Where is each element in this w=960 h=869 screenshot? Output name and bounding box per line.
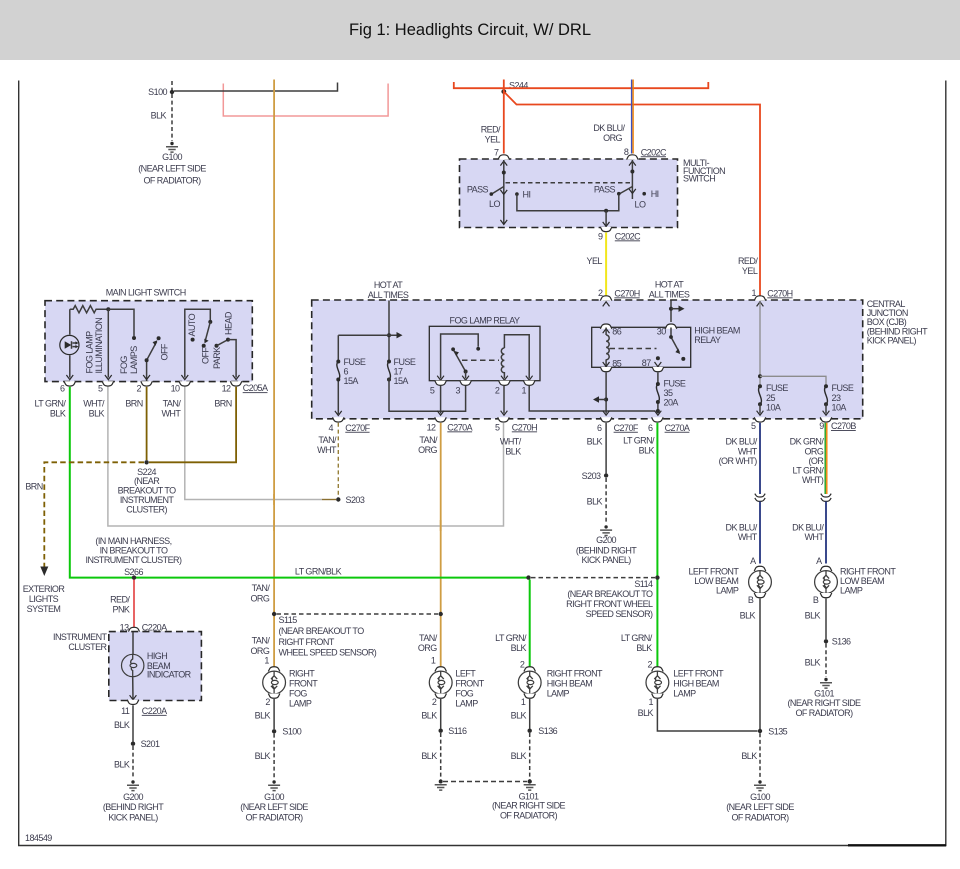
right front fog lamp bbox=[263, 656, 319, 709]
svg-text:FRONT: FRONT bbox=[455, 679, 484, 689]
fog lamp relay bbox=[429, 326, 540, 380]
node S116 bbox=[439, 726, 467, 736]
left front fog lamp bbox=[429, 656, 484, 709]
wire dashed BLK above S100 bbox=[171, 81, 173, 90]
node S115 on tan run bbox=[272, 612, 377, 658]
svg-text:BLK: BLK bbox=[255, 751, 271, 761]
svg-text:PASS: PASS bbox=[467, 184, 489, 194]
fuse 35 20A bbox=[655, 373, 686, 416]
svg-text:S115: S115 bbox=[279, 615, 298, 625]
MLS pin 5 bbox=[98, 381, 114, 393]
wire RED/YEL from top through S244 to MFS pin 7 bbox=[503, 80, 505, 154]
svg-text:7: 7 bbox=[494, 147, 499, 157]
MLS pin 12 bbox=[222, 381, 242, 393]
svg-text:5: 5 bbox=[751, 421, 756, 431]
MFS right headlamp switch assembly bbox=[594, 160, 659, 210]
MLS internal wires left bbox=[66, 307, 136, 379]
svg-text:ILLUMINATION: ILLUMINATION bbox=[94, 318, 104, 374]
svg-text:85: 85 bbox=[612, 359, 621, 369]
wire dashed S114 link bbox=[531, 577, 655, 579]
inline connector (right low beam feed) bbox=[821, 494, 831, 502]
wire dashed S115 to tan branch bbox=[277, 613, 439, 615]
svg-text:9: 9 bbox=[819, 421, 824, 431]
svg-text:17: 17 bbox=[394, 367, 403, 377]
svg-text:S135: S135 bbox=[768, 726, 787, 736]
wire LT GRN/BLK MLS pin 6 to S114 run bbox=[70, 387, 529, 578]
svg-text:HEAD: HEAD bbox=[224, 311, 234, 335]
svg-text:C270B: C270B bbox=[831, 421, 856, 431]
ground G101 (near right side of radiator) bbox=[492, 779, 566, 820]
svg-text:9: 9 bbox=[598, 231, 603, 241]
fog lamp relay pin 2 bbox=[495, 376, 510, 396]
high beam relay coil bbox=[606, 328, 609, 367]
svg-text:1: 1 bbox=[431, 656, 436, 666]
svg-text:BLK: BLK bbox=[421, 751, 437, 761]
svg-text:RIGHT: RIGHT bbox=[289, 668, 315, 678]
instrument cluster box bbox=[109, 632, 202, 701]
svg-text:HI: HI bbox=[523, 189, 531, 199]
central junction box (CJB) bbox=[312, 300, 863, 419]
CJB hot feed left vertical bbox=[338, 301, 402, 363]
svg-text:S136: S136 bbox=[538, 726, 557, 736]
svg-text:EXTERIOR: EXTERIOR bbox=[23, 584, 66, 594]
node S203 (left splice) bbox=[336, 495, 365, 505]
svg-text:S114: S114 bbox=[634, 579, 653, 589]
fog lamp relay internals bbox=[441, 334, 530, 379]
pin 7 C202C bbox=[494, 147, 510, 165]
node S114 junction on green run bbox=[526, 575, 530, 579]
label HOT AT ALL TIMES (right) bbox=[649, 280, 690, 300]
wire LT GRN/BLK down to right front high beam lamp bbox=[529, 580, 531, 668]
svg-text:12: 12 bbox=[222, 384, 231, 394]
svg-text:BLK: BLK bbox=[151, 110, 167, 120]
CJB pin 5 C270H bbox=[495, 417, 537, 432]
svg-text:LAMP: LAMP bbox=[840, 585, 863, 595]
svg-text:FOG: FOG bbox=[289, 689, 307, 699]
wire BLK low beam B to S136 bbox=[825, 599, 827, 640]
svg-text:LT GRN/BLK: LT GRN/BLK bbox=[295, 567, 342, 577]
svg-text:RIGHT FRONT WHEEL: RIGHT FRONT WHEEL bbox=[566, 599, 653, 609]
svg-text:LIGHTS: LIGHTS bbox=[29, 594, 59, 604]
svg-text:FOG LAMP: FOG LAMP bbox=[85, 331, 95, 374]
svg-text:LEFT FRONT: LEFT FRONT bbox=[673, 668, 724, 678]
pin 9 C202C bbox=[598, 227, 641, 242]
multi-function switch U-MFS box bbox=[460, 159, 678, 228]
svg-text:C202C: C202C bbox=[641, 147, 667, 157]
svg-text:C270F: C270F bbox=[345, 423, 370, 433]
svg-text:BLK: BLK bbox=[421, 710, 437, 720]
svg-text:BLK: BLK bbox=[114, 720, 130, 730]
svg-text:FUSE: FUSE bbox=[832, 383, 854, 393]
svg-text:WHT/: WHT/ bbox=[500, 437, 522, 447]
label EXTERIOR LIGHTS SYSTEM bbox=[23, 584, 66, 614]
svg-text:BRN: BRN bbox=[125, 398, 142, 408]
svg-text:10: 10 bbox=[171, 384, 180, 394]
svg-text:C202C: C202C bbox=[615, 231, 641, 241]
MLS pin 6 bbox=[60, 381, 76, 393]
svg-text:OF RADIATOR): OF RADIATOR) bbox=[795, 708, 853, 718]
fog lamp relay pin 3 bbox=[456, 376, 472, 396]
svg-text:35: 35 bbox=[664, 388, 673, 398]
svg-text:6: 6 bbox=[344, 367, 349, 377]
svg-text:S203: S203 bbox=[582, 471, 601, 481]
svg-text:INSTRUMENT: INSTRUMENT bbox=[53, 632, 108, 642]
svg-text:C270H: C270H bbox=[767, 288, 792, 298]
ground G101 (near right side of radiator) bbox=[787, 678, 861, 718]
wire DK BLU/ORG from top to MFS pin 8 bbox=[632, 80, 634, 154]
wire dashed BLK to G101 main bbox=[443, 781, 527, 783]
right front high beam lamp bbox=[518, 660, 603, 708]
svg-text:LAMP: LAMP bbox=[673, 689, 696, 699]
svg-text:TAN/: TAN/ bbox=[252, 583, 271, 593]
wire WHT/BLK CJB pin 5 to MLS pin 5 bbox=[108, 382, 504, 526]
svg-text:G100: G100 bbox=[264, 792, 284, 802]
svg-text:8: 8 bbox=[624, 147, 629, 157]
svg-text:S116: S116 bbox=[448, 726, 467, 736]
MLS pin 2 bbox=[137, 381, 153, 393]
svg-text:87: 87 bbox=[642, 358, 651, 368]
wire DK BLU/WHT CJB pin 5 to inline connector bbox=[759, 423, 761, 494]
wire dashed BLK S116 to G101 bbox=[440, 733, 442, 780]
svg-text:Fig 1: Headlights Circuit, W/: Fig 1: Headlights Circuit, W/ DRL bbox=[349, 21, 591, 39]
svg-text:FUSE: FUSE bbox=[766, 383, 788, 393]
node S135 bbox=[758, 726, 788, 736]
wire TAN/ORG CJB pin 12 to left front fog lamp bbox=[440, 423, 442, 667]
svg-text:LT GRN/: LT GRN/ bbox=[34, 398, 66, 408]
svg-text:BRN: BRN bbox=[25, 482, 42, 492]
fog lamp relay pin 1 bbox=[522, 376, 535, 396]
CJB feed from pin 1 C270H to fuses 25/23 bbox=[758, 302, 826, 386]
high beam relay pin 86 bbox=[600, 324, 621, 336]
wire BLK fog lamp 2 to S116 bbox=[440, 699, 442, 729]
svg-text:10A: 10A bbox=[832, 402, 847, 412]
svg-text:HIGH BEAM: HIGH BEAM bbox=[673, 679, 719, 689]
CJB pin 9 C270B bbox=[819, 417, 856, 431]
svg-text:25: 25 bbox=[766, 393, 775, 403]
svg-text:ORG: ORG bbox=[250, 593, 269, 603]
wire TAN/ORG long vertical from top to right front fog lamp bbox=[273, 80, 275, 668]
svg-text:HOT AT: HOT AT bbox=[655, 280, 684, 290]
MLS fog lamp illumination bulb bbox=[60, 335, 79, 354]
label HOT AT ALL TIMES (left) bbox=[368, 280, 409, 300]
svg-text:(NEAR BREAKOUT TO: (NEAR BREAKOUT TO bbox=[279, 626, 365, 636]
svg-text:10A: 10A bbox=[766, 402, 781, 412]
svg-text:1: 1 bbox=[649, 697, 654, 707]
svg-text:WHT: WHT bbox=[738, 446, 758, 456]
svg-text:LAMP: LAMP bbox=[547, 689, 570, 699]
wire dashed BLK S100 to G100 bbox=[273, 734, 275, 779]
pin 2 C270H (CJB top) bbox=[598, 288, 640, 306]
svg-text:G100: G100 bbox=[750, 792, 770, 802]
svg-text:30: 30 bbox=[657, 326, 666, 336]
svg-text:WHT: WHT bbox=[804, 532, 824, 542]
svg-text:B: B bbox=[748, 595, 754, 605]
svg-text:HI: HI bbox=[651, 189, 659, 199]
svg-text:OF RADIATOR): OF RADIATOR) bbox=[246, 812, 304, 822]
wire dashed BRN S224 to exterior lights system bbox=[44, 462, 144, 567]
svg-text:RELAY: RELAY bbox=[694, 335, 721, 345]
svg-text:RED/: RED/ bbox=[110, 595, 130, 605]
high beam indicator lamp bbox=[122, 651, 192, 680]
svg-text:3: 3 bbox=[456, 386, 461, 396]
svg-text:ORG: ORG bbox=[418, 643, 437, 653]
svg-text:5: 5 bbox=[430, 386, 435, 396]
svg-text:SWITCH: SWITCH bbox=[683, 174, 715, 184]
svg-text:WHT/: WHT/ bbox=[83, 398, 105, 408]
svg-text:SYSTEM: SYSTEM bbox=[27, 604, 61, 614]
svg-text:SPEED SENSOR): SPEED SENSOR) bbox=[586, 609, 653, 619]
svg-text:BLK: BLK bbox=[255, 710, 271, 720]
svg-text:C270H: C270H bbox=[614, 288, 639, 298]
svg-text:BLK: BLK bbox=[740, 611, 756, 621]
svg-text:4: 4 bbox=[329, 423, 334, 433]
svg-text:BLK: BLK bbox=[587, 437, 603, 447]
wire DK BLU/WHT connector to lamp A bbox=[759, 502, 761, 564]
svg-text:YEL: YEL bbox=[742, 266, 758, 276]
wire dashed BLK S201 to G200 bbox=[132, 746, 134, 779]
node S266 bbox=[132, 575, 136, 579]
svg-text:PARK: PARK bbox=[212, 347, 222, 369]
svg-text:(BEHIND RIGHT: (BEHIND RIGHT bbox=[576, 545, 637, 555]
svg-text:LO: LO bbox=[489, 199, 500, 209]
svg-text:LAMP: LAMP bbox=[716, 585, 739, 595]
svg-text:FUSE: FUSE bbox=[664, 378, 686, 388]
svg-text:BLK: BLK bbox=[511, 751, 527, 761]
svg-text:S136: S136 bbox=[832, 637, 851, 647]
label S114 bbox=[566, 579, 653, 619]
svg-text:B: B bbox=[813, 595, 819, 605]
svg-text:11: 11 bbox=[121, 706, 130, 716]
wire RED/PNK S266 to instrument cluster pin 13 bbox=[133, 580, 135, 628]
svg-text:WHEEL SPEED SENSOR): WHEEL SPEED SENSOR) bbox=[279, 648, 377, 658]
svg-text:BLK: BLK bbox=[805, 611, 821, 621]
node S244 bbox=[501, 81, 528, 94]
svg-text:(NEAR LEFT SIDE: (NEAR LEFT SIDE bbox=[240, 802, 308, 812]
svg-text:S100: S100 bbox=[282, 727, 301, 737]
svg-text:WHT: WHT bbox=[161, 408, 181, 418]
svg-text:FOG LAMP RELAY: FOG LAMP RELAY bbox=[450, 315, 521, 325]
wire BLK CJB pin 6 C270F to S203 bbox=[605, 423, 607, 474]
svg-text:S100: S100 bbox=[148, 87, 167, 97]
svg-text:LT GRN/: LT GRN/ bbox=[623, 436, 655, 446]
svg-text:2: 2 bbox=[495, 386, 500, 396]
node S224 bbox=[118, 460, 177, 514]
svg-text:RED/: RED/ bbox=[738, 256, 758, 266]
svg-text:C205A: C205A bbox=[243, 383, 268, 393]
svg-text:BLK: BLK bbox=[636, 643, 652, 653]
svg-text:OFF: OFF bbox=[160, 343, 170, 360]
wire BLK high beam 1 to S136 bbox=[529, 699, 531, 729]
wire BLK pin 11 to S201 bbox=[132, 705, 134, 741]
pin 8 C202C bbox=[624, 147, 667, 166]
high beam relay pin 30 bbox=[657, 324, 677, 336]
svg-text:BLK: BLK bbox=[638, 708, 654, 718]
svg-text:15A: 15A bbox=[344, 376, 359, 386]
svg-text:15A: 15A bbox=[394, 376, 409, 386]
left front low beam lamp bbox=[688, 556, 771, 605]
wire dashed BLK S100 to G100 bbox=[171, 94, 173, 141]
instrument cluster pin 13 C220A bbox=[120, 623, 167, 639]
svg-text:BLK: BLK bbox=[639, 446, 655, 456]
wire LT GRN/BLK CJB pin 6 C270A to left front high beam lamp bbox=[656, 423, 658, 667]
MFS mechanical linkage dashed bbox=[506, 182, 631, 184]
title header band bbox=[0, 0, 960, 60]
svg-text:ALL TIMES: ALL TIMES bbox=[649, 290, 690, 300]
svg-text:YEL: YEL bbox=[587, 256, 603, 266]
svg-text:A: A bbox=[816, 556, 822, 566]
pin 1 C270H (CJB top) bbox=[752, 288, 793, 306]
svg-text:WHT: WHT bbox=[738, 532, 758, 542]
wire DK BLU/WHT connector to lamp A bbox=[825, 502, 827, 564]
CJB hot feed right vertical to relay pin 30 bbox=[669, 301, 685, 323]
svg-text:TAN/: TAN/ bbox=[163, 398, 182, 408]
ground G100 (near left side of radiator) bbox=[240, 780, 308, 822]
svg-text:BLK: BLK bbox=[89, 408, 105, 418]
svg-text:12: 12 bbox=[427, 422, 436, 432]
svg-text:DK BLU/: DK BLU/ bbox=[726, 436, 758, 446]
svg-text:(OR: (OR bbox=[808, 456, 824, 466]
wire dashed BLK S135 to G100 bbox=[759, 733, 761, 779]
svg-text:23: 23 bbox=[832, 393, 841, 403]
high beam relay pin 87 bbox=[642, 358, 664, 372]
high beam relay pin 85 bbox=[600, 359, 621, 372]
instrument cluster pin 11 C220A bbox=[121, 695, 167, 716]
wire BRN MLS pin 2 to S224 bbox=[146, 387, 148, 460]
svg-text:RIGHT FRONT: RIGHT FRONT bbox=[547, 668, 603, 678]
CJB pin 12 C270A bbox=[427, 417, 473, 432]
svg-text:TAN/: TAN/ bbox=[318, 435, 337, 445]
svg-text:KICK PANEL): KICK PANEL) bbox=[108, 812, 158, 822]
svg-text:LT GRN/: LT GRN/ bbox=[621, 633, 653, 643]
svg-text:CLUSTER: CLUSTER bbox=[68, 642, 107, 652]
svg-text:(OR WHT): (OR WHT) bbox=[719, 456, 758, 466]
fuse 23 10A bbox=[823, 383, 854, 415]
MFS internal wire HI contact to pin 9 bbox=[517, 194, 619, 227]
node S100 (top left splice) bbox=[148, 87, 174, 97]
svg-text:ORG: ORG bbox=[603, 133, 622, 143]
svg-text:86: 86 bbox=[612, 326, 621, 336]
svg-text:2: 2 bbox=[137, 384, 142, 394]
MLS head switch bbox=[181, 309, 239, 379]
wire BLK high beam 1 to S135 bbox=[657, 699, 757, 731]
svg-text:(NEAR LEFT SIDE: (NEAR LEFT SIDE bbox=[138, 164, 206, 174]
svg-text:OF RADIATOR): OF RADIATOR) bbox=[143, 175, 201, 185]
svg-text:G200: G200 bbox=[596, 535, 616, 545]
svg-text:WHT): WHT) bbox=[802, 475, 824, 485]
svg-text:ORG: ORG bbox=[804, 446, 823, 456]
wire PNK bracket (off-page loop) bbox=[223, 84, 388, 117]
svg-text:FOG: FOG bbox=[455, 689, 473, 699]
left front high beam lamp bbox=[646, 660, 724, 708]
wire BLK fog lamp 2 to S100 bbox=[273, 699, 275, 729]
fog lamp relay pin 5 bbox=[430, 376, 447, 396]
ground G200 (behind right kick panel) bbox=[576, 525, 637, 565]
svg-text:C220A: C220A bbox=[142, 706, 167, 716]
svg-text:FUSE: FUSE bbox=[344, 357, 366, 367]
wire dashed BLK S203 to G200 bbox=[605, 478, 607, 524]
wire BLK from S100 heading right and off top bbox=[174, 83, 338, 92]
node S203 (right splice) bbox=[582, 471, 609, 481]
svg-text:KICK PANEL): KICK PANEL) bbox=[581, 555, 631, 565]
svg-text:BRN: BRN bbox=[214, 398, 231, 408]
node S201 bbox=[131, 739, 160, 749]
svg-text:LAMPS: LAMPS bbox=[129, 346, 139, 374]
CJB pin 4 C270F bbox=[329, 417, 371, 433]
svg-text:5: 5 bbox=[98, 384, 103, 394]
svg-text:LT GRN/: LT GRN/ bbox=[792, 465, 824, 475]
svg-text:2: 2 bbox=[265, 697, 270, 707]
CJB pin 6 C270F bbox=[597, 417, 639, 433]
svg-text:FRONT: FRONT bbox=[289, 679, 318, 689]
fuse 6 15A bbox=[335, 335, 366, 415]
CJB pin 5 (C270B) bbox=[751, 417, 766, 431]
svg-text:S203: S203 bbox=[346, 495, 365, 505]
svg-text:(BEHIND RIGHT: (BEHIND RIGHT bbox=[103, 802, 164, 812]
wire DK GRN/ORG CJB pin 9 to inline connector bbox=[825, 423, 827, 494]
MLS fog lamp switch blade bbox=[143, 336, 160, 381]
inline connector (left low beam feed) bbox=[755, 494, 765, 502]
svg-text:(NEAR RIGHT SIDE: (NEAR RIGHT SIDE bbox=[492, 801, 566, 811]
svg-text:RED/: RED/ bbox=[481, 125, 501, 135]
svg-text:(NEAR RIGHT SIDE: (NEAR RIGHT SIDE bbox=[787, 698, 861, 708]
svg-text:TAN/: TAN/ bbox=[252, 636, 271, 646]
svg-text:DK GRN/: DK GRN/ bbox=[790, 436, 825, 446]
svg-text:FOG: FOG bbox=[119, 356, 129, 374]
svg-text:C270A: C270A bbox=[447, 422, 472, 432]
svg-text:5: 5 bbox=[495, 422, 500, 432]
wire TAN/WHT dashed CJB pin 4 to S203 bbox=[337, 423, 339, 497]
svg-text:BLK: BLK bbox=[587, 496, 603, 506]
wire relay 85 to CJB pin 6 C270F bbox=[593, 373, 609, 416]
fuse 25 10A bbox=[757, 383, 789, 415]
ground G100 (near left side of radiator) bbox=[138, 142, 206, 186]
wire fog relay pin 5 to CJB pin 12 bbox=[440, 386, 442, 414]
svg-text:BLK: BLK bbox=[511, 710, 527, 720]
svg-text:1: 1 bbox=[521, 697, 526, 707]
svg-text:C270F: C270F bbox=[614, 423, 639, 433]
wire BRN MLS pin 12 to S224 bbox=[149, 387, 236, 463]
node S136 bbox=[824, 637, 851, 647]
svg-text:BLK: BLK bbox=[805, 657, 821, 667]
svg-text:OFF: OFF bbox=[201, 347, 211, 364]
svg-text:WHT: WHT bbox=[317, 445, 337, 455]
svg-text:1: 1 bbox=[522, 386, 527, 396]
ground G100 (near left side of radiator) bbox=[726, 780, 794, 822]
svg-text:6: 6 bbox=[597, 423, 602, 433]
wire fog relay pin 2 to CJB pin 5 bbox=[503, 386, 505, 414]
label (IN MAIN HARNESS...) above S266 bbox=[86, 536, 182, 577]
wire dashed BLK S136 to G101 bbox=[529, 733, 531, 780]
svg-text:YEL: YEL bbox=[485, 135, 501, 145]
svg-text:PASS: PASS bbox=[594, 184, 616, 194]
svg-text:LO: LO bbox=[635, 200, 646, 210]
svg-text:S201: S201 bbox=[141, 739, 160, 749]
svg-text:ORG: ORG bbox=[418, 445, 437, 455]
svg-text:TAN/: TAN/ bbox=[419, 435, 438, 445]
svg-text:MAIN LIGHT SWITCH: MAIN LIGHT SWITCH bbox=[106, 287, 186, 297]
svg-text:OF RADIATOR): OF RADIATOR) bbox=[500, 811, 558, 821]
svg-text:KICK PANEL): KICK PANEL) bbox=[867, 336, 917, 346]
svg-text:2: 2 bbox=[648, 660, 653, 670]
svg-text:LT GRN/: LT GRN/ bbox=[495, 633, 527, 643]
svg-text:C270H: C270H bbox=[512, 422, 537, 432]
wire fog relay pin 1 to fuse35 output bbox=[529, 386, 655, 411]
svg-text:A: A bbox=[750, 556, 756, 566]
high beam relay linkage dashed bbox=[610, 348, 657, 350]
svg-text:CLUSTER): CLUSTER) bbox=[126, 504, 167, 514]
ground G200 (behind right kick panel) bbox=[103, 780, 164, 822]
svg-text:184549: 184549 bbox=[25, 833, 52, 843]
